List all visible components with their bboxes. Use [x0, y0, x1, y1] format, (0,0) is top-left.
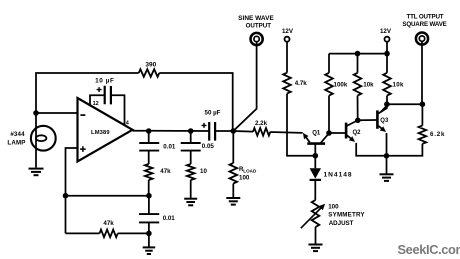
resistor 6.2k: [419, 126, 427, 144]
svg-text:12: 12: [93, 101, 99, 107]
svg-text:#344: #344: [10, 131, 25, 138]
plus 50uF: [202, 123, 207, 128]
resistor 4.7k: [283, 73, 291, 94]
svg-text:10 µF: 10 µF: [95, 78, 114, 85]
wire 12V left stem: [286, 42, 288, 73]
svg-text:47k: 47k: [160, 168, 171, 175]
wire cap2 upper stem: [148, 196, 150, 214]
svg-text:2.2k: 2.2k: [255, 120, 268, 127]
svg-text:10k: 10k: [363, 81, 374, 88]
wire Q1 base to diode: [314, 156, 316, 169]
wire feedback mid horizontal: [66, 195, 149, 197]
wire pin12 stub: [90, 95, 105, 105]
ground emitters: [380, 173, 394, 175]
wire branch1 lower stem: [148, 180, 150, 196]
wire cap2 lower stem: [148, 222, 150, 233]
op-amp plus sign: [80, 146, 86, 152]
terminal TTL output: [416, 33, 428, 45]
ground branch2: [184, 198, 197, 200]
wire node to 2.2k: [233, 130, 253, 133]
wire branch1 upper stem: [148, 131, 150, 143]
svg-text:1N4148: 1N4148: [324, 171, 353, 178]
svg-text:47k: 47k: [103, 220, 114, 227]
wire 6.2k bottom: [387, 144, 423, 156]
wire branch2 lower stem: [190, 180, 192, 198]
node Q3 collector: [384, 101, 390, 107]
capacitor 0.01 lower: [139, 214, 159, 222]
wire 4.7k to Q1 base: [287, 94, 315, 156]
wire pot to ground: [315, 227, 317, 244]
transistor Q2 emitter: [347, 135, 353, 140]
wire 10k mid top: [357, 54, 359, 73]
node branch1 top: [146, 128, 152, 134]
node feedback left: [63, 193, 69, 199]
plus 10uF: [97, 87, 102, 92]
wire 10k right top: [386, 54, 388, 73]
svg-text:10k: 10k: [393, 81, 404, 88]
ground pot: [309, 244, 323, 246]
capacitor 0.05: [181, 143, 201, 151]
resistor 10: [187, 164, 195, 180]
ground rload: [226, 197, 240, 199]
node cap2 bottom: [146, 231, 152, 237]
potentiometer 100: [312, 200, 320, 227]
svg-text:100: 100: [239, 175, 250, 182]
wire 47k horizontal left: [66, 232, 100, 234]
svg-text:50 µF: 50 µF: [205, 110, 221, 117]
svg-text:SINE WAVE: SINE WAVE: [238, 15, 274, 22]
wire 2.2k to Q1 emitter: [270, 131, 302, 134]
svg-text:0.01: 0.01: [163, 143, 176, 150]
transistor Q1 emitter: [304, 135, 310, 143]
wire 100k top: [328, 54, 330, 73]
wire 50uF to node: [215, 130, 233, 132]
svg-text:SeekIC.com: SeekIC.com: [398, 242, 460, 257]
wire noninverting input: [66, 148, 78, 233]
wire Q3 emitter down: [386, 133, 388, 156]
node Q1 base: [313, 153, 319, 159]
wire 100k bottom: [328, 96, 330, 133]
wire 47k horizontal right: [118, 232, 149, 234]
wire feedback top-right: [159, 73, 232, 129]
transistor Q1 collector: [321, 133, 329, 143]
svg-text:SYMMETRY: SYMMETRY: [328, 212, 365, 219]
svg-text:100: 100: [328, 204, 339, 211]
svg-text:10: 10: [200, 168, 207, 175]
wire rload upper stem: [232, 131, 234, 163]
wire inverting input: [36, 112, 78, 114]
svg-text:0.05: 0.05: [202, 143, 215, 150]
wire 12V rail: [329, 53, 387, 55]
wire output rail: [133, 130, 210, 132]
wire TTL stem: [421, 41, 423, 104]
resistor 10k mid: [354, 73, 362, 96]
svg-text:LAMP: LAMP: [7, 139, 25, 146]
svg-text:Q3: Q3: [380, 118, 389, 124]
node branch1 bottom: [146, 193, 152, 199]
svg-text:TTL OUTPUT: TTL OUTPUT: [407, 13, 444, 20]
resistor 2.2k: [253, 128, 270, 136]
svg-text:4.7k: 4.7k: [295, 80, 308, 87]
transistor Q2 collector: [347, 120, 358, 126]
potentiometer arrow: [301, 206, 323, 228]
node Q2 collector: [355, 118, 361, 124]
wire Q2 base: [329, 132, 345, 134]
lamp filament loop: [36, 135, 46, 141]
wire diode to pot: [314, 180, 316, 200]
lamp #344 bulb: [31, 126, 56, 151]
wire branch2 mid stem: [190, 151, 192, 164]
wire branch1 mid stem: [148, 151, 150, 164]
resistor 390: [139, 69, 160, 77]
capacitor 50uF: [209, 122, 215, 141]
resistor 100k: [325, 73, 333, 96]
wire cap2 ground stem: [148, 233, 150, 246]
svg-text:SQUARE WAVE: SQUARE WAVE: [402, 21, 446, 28]
wire 6.2k top: [421, 104, 423, 125]
wire Q3 base: [358, 119, 377, 121]
wire 10k mid bottom: [357, 96, 359, 121]
svg-text:LM389: LM389: [91, 130, 110, 136]
wire 12V right stem: [386, 42, 388, 54]
svg-text:100k: 100k: [334, 81, 348, 88]
op-amp minus sign: [80, 114, 85, 116]
svg-text:4: 4: [126, 120, 130, 126]
svg-text:0.01: 0.01: [163, 215, 176, 222]
node rail 10k mid: [355, 51, 361, 57]
node sine output: [231, 128, 237, 134]
ground cap2: [143, 246, 156, 248]
wire Q1 base lead: [314, 144, 316, 156]
svg-text:390: 390: [145, 62, 156, 69]
wire cap to pin4: [111, 95, 125, 125]
node branch2 top: [188, 128, 194, 134]
svg-text:12V: 12V: [380, 28, 392, 35]
node emitters: [384, 153, 390, 159]
transistor Q3 emitter: [378, 126, 384, 131]
wire collector rail: [387, 103, 422, 105]
resistor 47k horizontal: [100, 230, 118, 238]
wire Q2 emitter down: [356, 143, 386, 156]
wire feedback top-left: [36, 73, 139, 113]
node Q1 collector: [326, 130, 332, 136]
wire lamp to ground: [35, 113, 37, 168]
wire sine terminal stem: [233, 42, 256, 131]
diode 1N4148: [310, 168, 321, 178]
svg-text:Q2: Q2: [352, 130, 361, 136]
svg-text:LOAD: LOAD: [243, 169, 257, 174]
transistor Q1 bar: [307, 142, 325, 145]
capacitor 0.01 upper: [139, 143, 159, 151]
transistor Q3 bar: [376, 110, 379, 128]
terminal 12V left: [285, 37, 290, 42]
resistor R load: [230, 163, 238, 184]
ground lamp: [29, 168, 44, 170]
wire rload lower stem: [232, 184, 234, 198]
svg-text:OUTPUT: OUTPUT: [246, 23, 272, 30]
transistor Q3 collector: [378, 104, 387, 113]
svg-text:6.2k: 6.2k: [430, 131, 445, 138]
terminal 12V right: [385, 37, 390, 42]
svg-text:Q1: Q1: [312, 131, 321, 137]
svg-text:ADJUST: ADJUST: [329, 220, 354, 227]
wire branch2 upper stem: [190, 131, 192, 143]
node ttl: [420, 101, 426, 107]
node lamp top: [33, 110, 39, 116]
wire emitters ground stem: [386, 156, 388, 174]
resistor 10k right: [383, 73, 391, 96]
transistor Q2 bar: [345, 123, 348, 139]
terminal sine output: [251, 33, 263, 45]
svg-text:12V: 12V: [282, 28, 294, 35]
capacitor 10uF: [105, 86, 111, 105]
op-amp LM389 triangle: [78, 98, 133, 162]
resistor 47k vertical: [145, 164, 153, 180]
wire 10k right bottom: [386, 96, 388, 105]
node rail 12V: [384, 51, 390, 57]
